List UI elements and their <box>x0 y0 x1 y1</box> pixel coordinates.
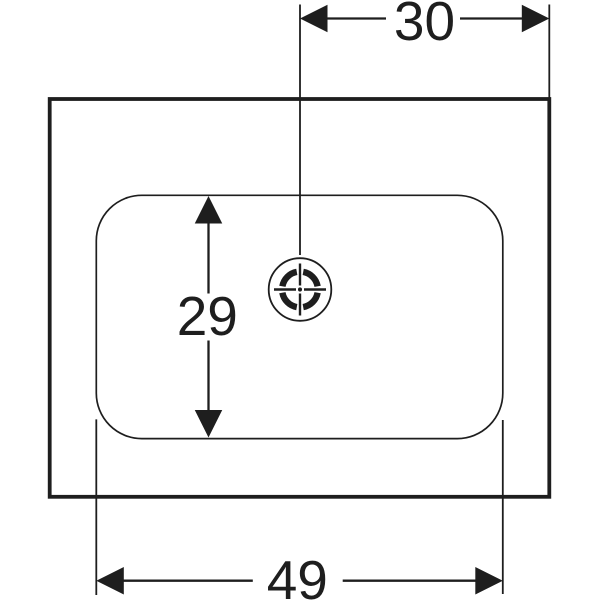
dimension line 29 <box>207 223 209 412</box>
washbasin outer outline <box>50 99 550 497</box>
dimension line 49 <box>123 580 477 582</box>
drain thick ring arc top-left <box>282 272 296 286</box>
extension line right of 30 dimension <box>548 5 550 98</box>
dimension line 30 <box>327 17 523 19</box>
extension line right of 49 dimension <box>502 420 504 594</box>
arrow top of 29 <box>195 196 223 224</box>
svg-text:30: 30 <box>394 0 455 52</box>
arrow left of 49 <box>96 567 124 595</box>
arrow right of 49 <box>475 567 503 595</box>
arrow bottom of 29 <box>195 410 223 438</box>
extension line left of 49 dimension <box>95 419 97 595</box>
arrow right of 30 <box>522 5 550 33</box>
drain crosshair vertical <box>299 264 301 316</box>
svg-text:49: 49 <box>267 549 328 600</box>
basin inner rounded outline <box>96 195 503 438</box>
drain outer circle <box>269 258 332 321</box>
drain thick ring arc top-right <box>303 272 317 286</box>
svg-text:29: 29 <box>177 285 238 347</box>
arrow left of 30 <box>300 5 328 33</box>
drain thick ring arc bottom-left <box>282 293 296 307</box>
drain crosshair horizontal <box>274 288 326 290</box>
drain thick ring arc bottom-right <box>303 293 317 307</box>
drain hole symbol <box>269 258 332 321</box>
centre line from top dimension to drain <box>299 5 301 256</box>
